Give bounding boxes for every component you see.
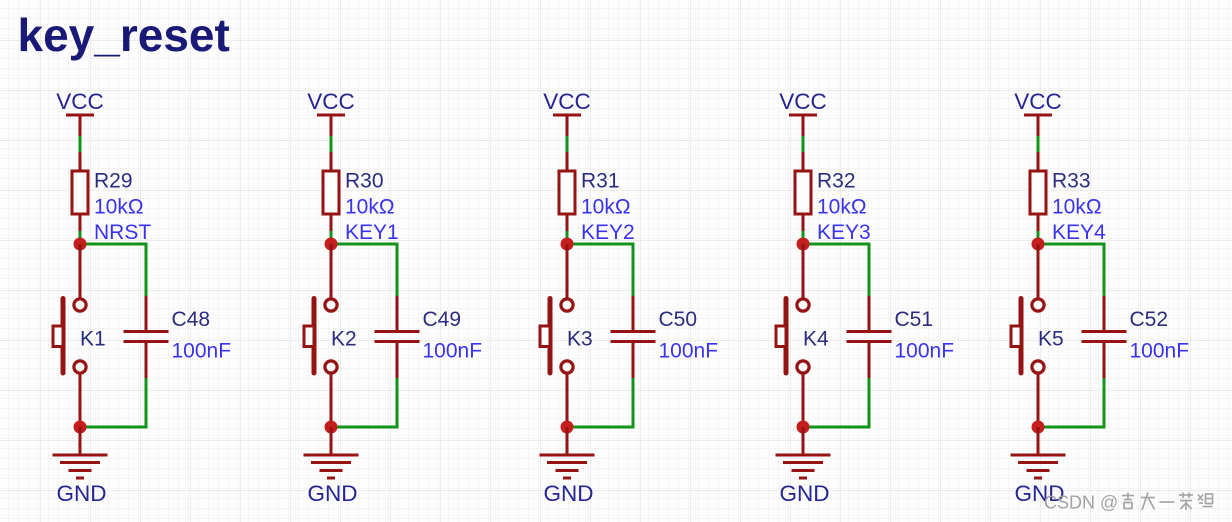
wire R30 to node KEY1	[330, 231, 333, 244]
label R30	[345, 170, 384, 193]
svg-text:K2: K2	[331, 328, 357, 351]
net label KEY1	[345, 221, 399, 244]
label R33	[1052, 170, 1091, 193]
value 10k&#937; of R29	[94, 196, 144, 219]
resistor R31	[559, 152, 575, 232]
wire VCC to R33	[1037, 136, 1040, 153]
svg-text:K5: K5	[1038, 328, 1064, 351]
svg-text:GND: GND	[544, 481, 594, 506]
svg-text:10kΩ: 10kΩ	[581, 196, 631, 219]
value 100nF of C49	[423, 340, 483, 363]
svg-text:100nF: 100nF	[895, 340, 955, 363]
junction node KEY2	[561, 238, 574, 251]
schematic title key_reset	[18, 9, 230, 61]
wire capacitor C52 to ground node	[1038, 378, 1104, 427]
label C52	[1130, 308, 1169, 331]
wire R29 to node NRST	[79, 231, 82, 244]
value 10k&#937; of R31	[581, 196, 631, 219]
wire node NRST to capacitor C48	[80, 244, 146, 298]
svg-text:GND: GND	[308, 481, 358, 506]
pushbutton K3	[540, 244, 573, 427]
svg-text:K1: K1	[80, 328, 106, 351]
pushbutton K4	[776, 244, 809, 427]
svg-text:100nF: 100nF	[423, 340, 483, 363]
watermark hanzi 3 (yi)	[1160, 501, 1175, 503]
svg-text:C52: C52	[1130, 308, 1169, 331]
wire capacitor C51 to ground node	[803, 378, 869, 427]
value 100nF of C50	[659, 340, 719, 363]
label K3	[567, 328, 593, 351]
junction node at ground of K2	[325, 421, 338, 434]
wire VCC to R29	[79, 136, 82, 153]
value 100nF of C51	[895, 340, 955, 363]
junction node at ground of K5	[1032, 421, 1045, 434]
svg-text:KEY1: KEY1	[345, 221, 399, 244]
svg-text:C51: C51	[895, 308, 934, 331]
svg-text:C49: C49	[423, 308, 462, 331]
capacitor C48	[124, 296, 169, 378]
junction node at ground of K3	[561, 421, 574, 434]
svg-text:K3: K3	[567, 328, 593, 351]
label C48	[172, 308, 211, 331]
junction node at ground of K4	[797, 421, 810, 434]
svg-text:10kΩ: 10kΩ	[345, 196, 395, 219]
wire R33 to node KEY4	[1037, 231, 1040, 244]
label R29	[94, 170, 133, 193]
svg-text:KEY3: KEY3	[817, 221, 871, 244]
svg-text:VCC: VCC	[56, 89, 104, 114]
wire R32 to node KEY3	[802, 231, 805, 244]
value 10k&#937; of R30	[345, 196, 395, 219]
label C49	[423, 308, 462, 331]
capacitor C51	[847, 296, 892, 378]
svg-text:VCC: VCC	[307, 89, 355, 114]
resistor R33	[1030, 152, 1046, 232]
label R31	[581, 170, 620, 193]
watermark hanzi 5 (ji)	[1198, 494, 1213, 507]
svg-text:100nF: 100nF	[1130, 340, 1190, 363]
watermark CSDN @	[1044, 493, 1118, 513]
capacitor C49	[375, 296, 420, 378]
resistor R32	[795, 152, 811, 232]
capacitor C50	[611, 296, 656, 378]
svg-text:C50: C50	[659, 308, 698, 331]
label K2	[331, 328, 357, 351]
wire VCC to R30	[330, 136, 333, 153]
wire VCC to R32	[802, 136, 805, 153]
wire R31 to node KEY2	[566, 231, 569, 244]
power flag VCC (R33 column)	[1014, 89, 1062, 137]
resistor R29	[72, 152, 88, 232]
value 100nF of C52	[1130, 340, 1190, 363]
svg-text:100nF: 100nF	[659, 340, 719, 363]
svg-text:R33: R33	[1052, 170, 1091, 193]
svg-text:R30: R30	[345, 170, 384, 193]
wire node KEY1 to capacitor C49	[331, 244, 397, 298]
pushbutton K2	[304, 244, 337, 427]
wire node KEY4 to capacitor C52	[1038, 244, 1104, 298]
pushbutton K1	[53, 244, 86, 427]
wire capacitor C49 to ground node	[331, 378, 397, 427]
value 10k&#937; of R33	[1052, 196, 1102, 219]
svg-text:key_reset: key_reset	[18, 9, 230, 61]
watermark hanzi 4 (cai)	[1179, 493, 1193, 511]
net label NRST	[94, 221, 151, 244]
wire VCC to R31	[566, 136, 569, 153]
pushbutton K5	[1011, 244, 1044, 427]
value 100nF of C48	[172, 340, 232, 363]
svg-text:C48: C48	[172, 308, 211, 331]
svg-text:VCC: VCC	[1014, 89, 1062, 114]
label K1	[80, 328, 106, 351]
net label KEY2	[581, 221, 635, 244]
svg-text:GND: GND	[780, 481, 830, 506]
svg-text:KEY2: KEY2	[581, 221, 635, 244]
ground symbol (R29 column)	[53, 427, 108, 506]
ground symbol (R32 column)	[776, 427, 831, 506]
net label KEY4	[1052, 221, 1106, 244]
svg-text:VCC: VCC	[543, 89, 591, 114]
ground symbol (R33 column)	[1011, 427, 1066, 506]
svg-text:10kΩ: 10kΩ	[94, 196, 144, 219]
label R32	[817, 170, 856, 193]
svg-text:R29: R29	[94, 170, 133, 193]
junction node KEY1	[325, 238, 338, 251]
value 10k&#937; of R32	[817, 196, 867, 219]
svg-text:10kΩ: 10kΩ	[817, 196, 867, 219]
junction node KEY4	[1032, 238, 1045, 251]
svg-text:CSDN @: CSDN @	[1044, 493, 1118, 513]
resistor R30	[323, 152, 339, 232]
label C50	[659, 308, 698, 331]
svg-text:R31: R31	[581, 170, 620, 193]
capacitor C52	[1082, 296, 1127, 378]
junction node NRST	[74, 238, 87, 251]
label K5	[1038, 328, 1064, 351]
junction node at ground of K1	[74, 421, 87, 434]
net label KEY3	[817, 221, 871, 244]
power flag VCC (R30 column)	[307, 89, 355, 137]
label K4	[803, 328, 829, 351]
wire node KEY3 to capacitor C51	[803, 244, 869, 298]
svg-text:GND: GND	[57, 481, 107, 506]
power flag VCC (R32 column)	[779, 89, 827, 137]
wire capacitor C50 to ground node	[567, 378, 633, 427]
junction node KEY3	[797, 238, 810, 251]
wire capacitor C48 to ground node	[80, 378, 146, 427]
watermark hanzi 2 (da)	[1141, 493, 1155, 511]
label C51	[895, 308, 934, 331]
svg-text:KEY4: KEY4	[1052, 221, 1106, 244]
power flag VCC (R31 column)	[543, 89, 591, 137]
svg-text:R32: R32	[817, 170, 856, 193]
wire node KEY2 to capacitor C50	[567, 244, 633, 298]
power flag VCC (R29 column)	[56, 89, 104, 137]
svg-text:NRST: NRST	[94, 221, 151, 244]
ground symbol (R31 column)	[540, 427, 595, 506]
svg-text:10kΩ: 10kΩ	[1052, 196, 1102, 219]
svg-text:K4: K4	[803, 328, 829, 351]
svg-text:100nF: 100nF	[172, 340, 232, 363]
ground symbol (R30 column)	[304, 427, 359, 506]
watermark hanzi 1 (ji)	[1122, 493, 1134, 509]
svg-text:VCC: VCC	[779, 89, 827, 114]
